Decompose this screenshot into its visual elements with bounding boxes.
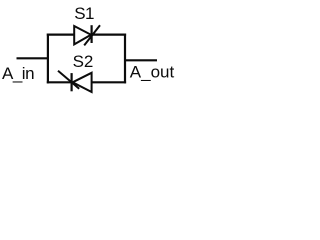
thyristor S1 gate diagonal bbox=[84, 25, 100, 45]
wire left vertical bbox=[47, 34, 49, 84]
thyristor S2 triangle bbox=[73, 73, 92, 92]
wire A_in lead bbox=[17, 57, 50, 59]
wire bottom-left segment bbox=[47, 81, 72, 83]
wire top-left segment bbox=[47, 33, 74, 35]
wire top-right segment bbox=[92, 33, 127, 35]
svg-text:1: 1 bbox=[85, 4, 94, 23]
svg-text:S2: S2 bbox=[73, 52, 94, 71]
svg-text:A_out: A_out bbox=[130, 62, 175, 81]
thyristor S1 triangle bbox=[74, 26, 91, 44]
thyristor S1 cathode bar bbox=[90, 25, 92, 43]
svg-text:S: S bbox=[74, 4, 85, 23]
thyristor S2 gate diagonal bbox=[58, 71, 79, 89]
wire right vertical bbox=[124, 34, 126, 84]
svg-text:A_in: A_in bbox=[2, 64, 34, 83]
thyristor S2 cathode bar bbox=[70, 73, 72, 91]
wire bottom-right segment bbox=[92, 81, 126, 83]
wire A_out lead bbox=[125, 59, 157, 61]
